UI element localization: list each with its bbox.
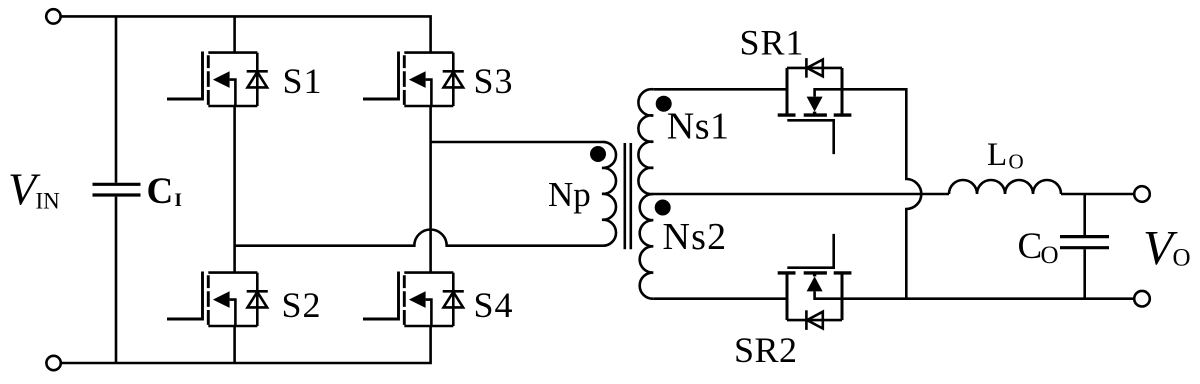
wire right leg midpoint [429,106,432,273]
SR2 channel [778,271,852,274]
polarity dot Ns2 [655,200,671,216]
wire CI top lead [115,16,118,182]
SR1 gate [787,120,833,154]
svg-text:I: I [175,190,182,211]
label VO [1143,220,1191,275]
S1 drain contact [208,51,257,54]
label VIN [8,164,60,215]
svg-text:Ns2: Ns2 [663,216,728,258]
transistor S2 [167,272,268,327]
svg-text:Np: Np [548,175,591,214]
svg-text:O: O [1173,245,1191,272]
S1 gate [167,52,203,100]
wire Co bottom lead [1083,249,1086,298]
svg-text:O: O [1041,242,1059,269]
SR2 drain contact [786,273,789,320]
svg-text:O: O [1009,150,1024,174]
S2 gate [167,272,203,320]
wire SR1 to output node (hop over centre tap) [842,89,921,298]
output terminal top [1134,186,1150,202]
S3 source link wire [426,80,432,106]
S2 source contact [208,325,257,328]
wire Lo to VO+ terminal [1061,193,1134,196]
S2 source link wire [230,300,236,326]
S3 source contact [404,105,453,108]
S4 gate [363,272,399,320]
input terminal bottom [46,356,60,370]
capacitor Co [1060,237,1109,248]
svg-text:C: C [147,171,174,212]
wire Co top lead [1083,194,1086,235]
transformer secondary Ns2 [640,194,654,299]
wire left leg midpoint [233,106,236,273]
output terminal bottom [1134,291,1150,307]
input terminal top [46,9,60,23]
S2 body diode [247,290,268,293]
S1 body-diode branch wire [256,53,259,106]
wire CI bottom lead [115,197,118,363]
wire bottom rail [61,326,431,363]
S4 drain contact [404,271,453,274]
svg-text:SR2: SR2 [734,330,798,370]
svg-text:S3: S3 [474,61,514,101]
svg-text:S4: S4 [474,285,514,325]
S3 source arrow [409,71,426,88]
S4 source contact [404,325,453,328]
transformer primary Np [602,142,616,246]
SR1 source contact [841,68,844,115]
S3 channel [403,55,406,105]
svg-text:L: L [987,137,1007,173]
transistor S4 [363,272,464,327]
svg-text:C: C [1018,226,1043,267]
S1 source arrow [213,71,230,88]
SR2 gate [787,234,833,268]
wire output bottom rail [842,297,1134,300]
SR2 source contact [841,273,844,320]
capacitor CI [93,184,141,195]
wire top rail [61,16,431,52]
SR2 source arrow [807,276,823,291]
S3 body diode [443,70,464,73]
label CI [147,171,182,212]
S4 body-diode branch wire [452,273,455,326]
polarity dot Np [590,146,606,162]
svg-text:IN: IN [36,189,61,214]
S1 source contact [208,105,257,108]
SR1 drain contact [786,68,789,115]
SR2 source link wire [815,291,842,298]
wire S1 drain [233,16,236,52]
transformer core [625,143,631,249]
polarity dot Ns1 [656,96,672,112]
wire S2 source [233,326,236,363]
S3 body-diode branch wire [452,53,455,106]
S2 source arrow [213,291,230,308]
transformer secondary Ns1 [638,89,653,194]
wire node B to primary top [431,141,602,144]
svg-text:S2: S2 [282,285,322,325]
S4 source link wire [426,300,432,326]
S4 channel [403,275,406,325]
S3 drain contact [404,51,453,54]
S4 source arrow [409,291,426,308]
transistor SR1 [778,58,852,154]
S2 body-diode branch wire [256,273,259,326]
wire node A to primary bottom (hop over right leg) [235,229,602,245]
wire Ns1 to SR1 [653,88,787,91]
S3 gate [363,52,399,100]
S4 body diode [443,290,464,293]
wire Ns2 to SR2 [653,297,787,300]
svg-text:Ns1: Ns1 [667,105,730,147]
transistor S3 [363,52,464,107]
S1 body diode [247,70,268,73]
S1 channel [207,55,210,105]
SR2 body-diode branch wire [787,319,842,322]
wire centre tap to Lo [653,193,949,196]
svg-text:S1: S1 [283,61,323,101]
transistor SR2 [778,234,852,330]
SR1 body diode [805,58,808,78]
SR1 source link wire [815,89,842,96]
SR2 body diode [805,310,808,330]
svg-text:SR1: SR1 [740,23,805,63]
transistor S1 [167,52,268,107]
inductor Lo [949,180,1061,194]
label Lo [987,137,1024,174]
SR1 source arrow [807,97,823,112]
S1 source link wire [230,80,236,106]
S2 channel [207,275,210,325]
S2 drain contact [208,271,257,274]
SR1 channel [778,113,852,116]
SR1 body-diode branch wire [787,67,842,70]
label Co [1018,226,1059,269]
